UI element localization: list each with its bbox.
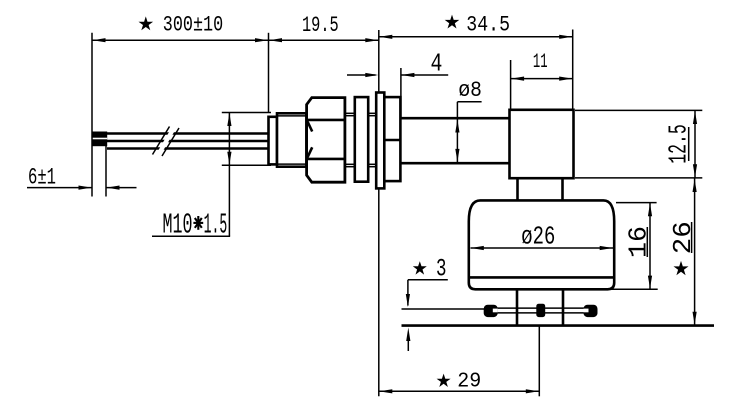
neck between body and float [518, 178, 563, 200]
stripped wire ends [92, 132, 107, 147]
dimension Ø26 [471, 221, 614, 251]
clip left end cap [484, 305, 498, 317]
extension line left cable end [91, 33, 93, 197]
wire leads [107, 134, 269, 149]
svg-text:6±1: 6±1 [28, 164, 56, 190]
dimension 12.5 [575, 110, 702, 177]
dimension M10*1.5 thread callout [152, 113, 271, 242]
dimension 4 [347, 49, 448, 79]
dimension 19.5 [269, 13, 379, 42]
svg-text:11: 11 [533, 51, 548, 74]
cable break symbol [153, 127, 180, 157]
dimension star 26 [668, 178, 698, 325]
float Ø26 [469, 200, 614, 289]
clip level line [402, 308, 485, 310]
threaded rod M10 segment 2 [368, 113, 376, 166]
dimension 16 [610, 203, 658, 290]
stem tube Ø8 [400, 118, 509, 163]
svg-text:ø8: ø8 [458, 78, 482, 103]
mounting surface line [402, 324, 715, 327]
mounting flange washer [376, 93, 384, 189]
washer [355, 97, 368, 182]
svg-text:300±10: 300±10 [163, 13, 223, 38]
hex nut [307, 98, 345, 183]
extension line flange face [378, 30, 380, 396]
svg-text:12.5: 12.5 [664, 124, 694, 164]
svg-text:16: 16 [624, 226, 654, 258]
threaded rod M10 segment 1 [345, 113, 355, 166]
dimension 300±10 [92, 13, 269, 43]
clip right end cap [584, 305, 598, 317]
dimension 6±1 [27, 164, 137, 190]
extension line body left [510, 60, 512, 110]
clip center hub [536, 304, 545, 317]
tail guide below float [517, 289, 563, 326]
dimension Ø8 [455, 78, 482, 162]
svg-text:29: 29 [457, 370, 481, 393]
connector housing end cap [269, 117, 278, 165]
svg-text:4: 4 [431, 49, 443, 79]
retaining clip bar [485, 308, 598, 313]
svg-text:3: 3 [436, 254, 447, 283]
extension line stem start [400, 68, 402, 118]
svg-text:ø26: ø26 [521, 221, 555, 251]
svg-text:1.5: 1.5 [204, 209, 228, 242]
dimension 11 [511, 51, 573, 81]
extension line housing left [268, 33, 270, 113]
gland block [384, 97, 400, 181]
dimension star 3 [406, 254, 448, 351]
svg-text:34.5: 34.5 [466, 12, 510, 37]
svg-text:19.5: 19.5 [302, 13, 339, 38]
svg-text:26: 26 [668, 221, 698, 254]
dimension 34.5 [379, 12, 573, 39]
svg-text:M10: M10 [163, 209, 193, 242]
switch body square [510, 110, 574, 178]
extension line body right [572, 30, 574, 110]
extension line stripped length [105, 140, 107, 197]
dimension star 29 [379, 326, 540, 396]
housing cylinder [277, 113, 306, 166]
